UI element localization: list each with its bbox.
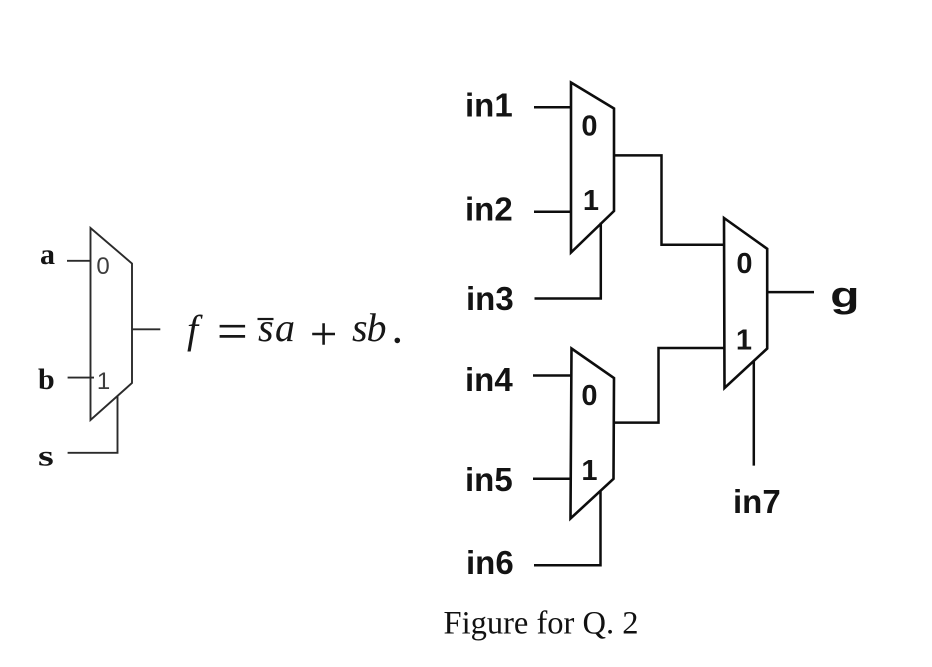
wire U3 output to U4 input 1 [614, 348, 724, 423]
node in6 label [466, 544, 514, 581]
mux U3 pin 0 label [581, 380, 597, 412]
node a label [40, 238, 55, 271]
mux U4 pin 1 label [736, 325, 752, 357]
mux U3 body [571, 349, 615, 519]
svg-text:a: a [275, 305, 295, 350]
svg-text:s: s [38, 439, 54, 473]
svg-text:s: s [352, 305, 368, 350]
svg-text:0: 0 [581, 380, 597, 412]
wire U2 output to U4 input 0 [614, 155, 724, 244]
svg-text:g: g [830, 275, 859, 315]
wire in6 select to U3 [534, 491, 601, 565]
mux U2 pin 1 label [583, 185, 599, 217]
svg-text:b: b [38, 363, 55, 396]
svg-text:1: 1 [583, 185, 599, 217]
mux U1 pin 0 label [96, 253, 109, 280]
node in1 label [465, 87, 513, 124]
node in7 label [733, 483, 781, 520]
svg-text:in2: in2 [465, 190, 513, 227]
wire select s to U1 [68, 396, 118, 453]
svg-text:0: 0 [736, 248, 752, 280]
svg-text:1: 1 [581, 455, 597, 487]
node s label [38, 439, 54, 473]
svg-text:in7: in7 [733, 483, 781, 520]
node in4 label [465, 361, 513, 398]
wire in1 to U2 [534, 106, 571, 109]
node in3 label [466, 280, 514, 317]
svg-text:0: 0 [96, 253, 109, 280]
wire U1 output f [132, 328, 160, 330]
mux U1 pin 1 label [97, 368, 110, 395]
wire in3 select to U2 [535, 223, 601, 299]
node g label [830, 275, 859, 315]
wire in4 to U3 [533, 374, 572, 377]
svg-text:1: 1 [736, 325, 752, 357]
caption Figure for Q. 2 [444, 605, 639, 641]
svg-text:in3: in3 [466, 280, 514, 317]
wire U4 output g [767, 291, 814, 294]
mux U4 pin 0 label [736, 248, 752, 280]
node b label [38, 363, 55, 396]
mux U4 body [724, 218, 767, 388]
svg-text:b: b [367, 305, 387, 350]
wire in7 select to U4 [753, 361, 756, 466]
node in5 label [465, 461, 513, 498]
svg-text:0: 0 [581, 111, 597, 143]
mux U2 body [571, 83, 614, 253]
mux U2 pin 0 label [581, 111, 597, 143]
wire input b to U1 [68, 377, 94, 379]
svg-text:f: f [187, 307, 203, 352]
wire in5 to U3 [533, 478, 571, 481]
svg-text:in5: in5 [465, 461, 513, 498]
mux U3 pin 1 label [581, 455, 597, 487]
svg-text:in6: in6 [466, 544, 514, 581]
equation f = sbar a + s b [187, 305, 400, 352]
wire input a to U1 [67, 260, 91, 262]
svg-text:in1: in1 [465, 87, 513, 124]
svg-text:in4: in4 [465, 361, 513, 398]
mux U1 body [91, 228, 133, 420]
svg-text:a: a [40, 238, 55, 271]
node in2 label [465, 190, 513, 227]
svg-text:1: 1 [97, 368, 110, 395]
wire in2 to U2 [534, 210, 571, 213]
svg-text:s: s [258, 305, 274, 350]
svg-text:Figure for Q. 2: Figure for Q. 2 [444, 605, 639, 641]
